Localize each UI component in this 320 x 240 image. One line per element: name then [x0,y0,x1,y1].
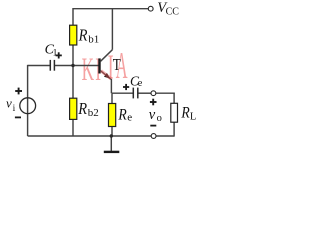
wire top rail [73,8,148,10]
svg-text:L: L [190,111,196,122]
label Rb2 [77,100,99,119]
wire input left segment [28,65,51,67]
svg-text:R: R [180,105,189,122]
watermark KIA [82,46,128,88]
label VCC [157,0,179,17]
ground [104,151,120,153]
transistor T emitter arrow [104,73,110,79]
watermark tint over emitter arrow [101,71,111,79]
wire bottom right to RL [156,135,174,137]
transistor T base bar [98,58,100,73]
capacitor Ce plates [133,88,138,99]
svg-text:1: 1 [53,49,58,59]
wire collector vertical [111,9,113,50]
svg-text:T: T [113,57,121,75]
svg-text:K: K [82,51,94,87]
wire Rb1 bottom lead to base node [72,45,74,98]
terminal output top [151,91,156,96]
svg-text:b1: b1 [88,33,99,45]
svg-text:b2: b2 [88,107,99,119]
wire ground stem [110,136,112,151]
transistor T collector diagonal [100,50,112,62]
minus sign vo [150,125,156,127]
junction dot emitter bottom node [110,134,113,137]
wire Re top lead [111,93,113,103]
svg-text:CC: CC [166,6,180,17]
wire bottom rail [28,135,152,137]
wire output circle to Ce [138,92,151,94]
resistor Rb2 [70,98,77,119]
label Rb1 [78,27,100,46]
label vo [149,107,162,124]
svg-text:R: R [117,107,126,124]
label C1 [45,42,58,58]
svg-text:v: v [149,107,156,123]
wire base horizontal from C1 to transistor [54,65,98,67]
wire Rb2 bottom lead [72,119,74,136]
source vi circle [20,98,36,114]
label RL [180,105,196,122]
resistor RL [171,103,178,122]
resistor Re [109,104,116,127]
wire Re bottom lead [111,127,113,137]
plus sign C1 [56,52,62,58]
wire emitter node to Ce [112,92,133,94]
wire RL top lead [173,93,175,104]
capacitor C1 plates [50,60,54,71]
wire RL bottom lead [173,122,175,136]
wire output top horizontal [156,92,175,94]
transistor T emitter diagonal [100,70,111,93]
svg-text:R: R [78,27,88,45]
plus sign vo [150,99,157,106]
plus sign source [15,88,22,95]
junction dot base node [71,64,74,67]
wire input vertical [27,65,29,136]
label Ce [130,73,143,89]
resistor Rb1 [70,25,77,45]
svg-text:i: i [13,104,16,114]
svg-text:R: R [77,100,87,118]
wire Rb1 top lead [72,8,74,25]
svg-text:o: o [157,113,162,124]
plus sign Ce [123,84,129,90]
terminal output bottom [151,134,156,139]
label vi [6,95,16,114]
svg-text:v: v [6,95,12,110]
label Re [117,107,132,124]
svg-text:e: e [127,111,132,123]
svg-text:e: e [138,78,143,89]
minus sign source [15,116,21,118]
terminal VCC [148,6,153,11]
